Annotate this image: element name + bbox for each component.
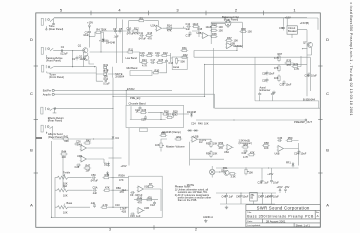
svg-text:(Rear Panel): (Rear Panel) bbox=[48, 119, 63, 123]
resistor R47 bbox=[83, 164, 91, 173]
svg-text:R18: R18 bbox=[103, 70, 108, 74]
svg-text:100: 100 bbox=[248, 30, 253, 34]
svg-text:R57: R57 bbox=[244, 143, 249, 147]
zone tick marks right bbox=[318, 66, 322, 173]
capacitor C2a .022uF bbox=[60, 45, 68, 56]
EQ band 2 box bbox=[126, 105, 184, 127]
svg-text:R67: R67 bbox=[278, 52, 283, 56]
capacitor C11 bbox=[138, 31, 146, 41]
svg-text:1/2: 1/2 bbox=[199, 140, 203, 144]
wire: J3 sleeve row bbox=[47, 71, 96, 73]
opamp U2A bbox=[151, 23, 164, 31]
capacitor C12b bbox=[150, 201, 156, 207]
resistor R15 bbox=[192, 25, 203, 31]
svg-text:4.7K: 4.7K bbox=[103, 203, 109, 207]
svg-text:R38: R38 bbox=[241, 27, 246, 31]
resistor R4 bbox=[100, 203, 108, 208]
label Mid Band bbox=[127, 66, 153, 76]
wire: U5B out down bbox=[190, 139, 224, 165]
svg-text:10K: 10K bbox=[264, 146, 269, 150]
svg-text:C15: C15 bbox=[140, 51, 145, 55]
jack J5 Effects Return bbox=[41, 107, 53, 114]
svg-text:10K: 10K bbox=[274, 76, 279, 80]
resistor R42 bbox=[83, 139, 91, 144]
wire: to U2B bbox=[192, 27, 211, 38]
svg-text:Ext/Pre: Ext/Pre bbox=[43, 88, 52, 92]
capacitor C8 bbox=[90, 201, 96, 208]
power block label +15V bbox=[285, 15, 310, 25]
svg-text:R10: R10 bbox=[138, 195, 143, 199]
svg-text:100: 100 bbox=[64, 139, 69, 143]
pot VR3 Aural Enhancer bbox=[171, 57, 188, 70]
zone letters left bbox=[30, 37, 33, 207]
resistor R5A bbox=[103, 186, 111, 192]
diode D1 bbox=[102, 37, 105, 42]
jack J6 Effects Send rear bbox=[41, 125, 52, 133]
diode D5 bbox=[104, 162, 110, 167]
svg-text:2N3904: 2N3904 bbox=[115, 74, 125, 78]
svg-text:Amp/In: Amp/In bbox=[43, 92, 52, 96]
svg-text:C: C bbox=[30, 91, 33, 96]
svg-text:Breaker: Breaker bbox=[288, 29, 297, 33]
resistor R7 bbox=[146, 182, 154, 187]
svg-text:Enhancer: Enhancer bbox=[260, 88, 271, 92]
svg-text:+15V(B): +15V(B) bbox=[300, 21, 310, 25]
svg-text:R51: R51 bbox=[177, 135, 182, 139]
wire: bus B3 bbox=[113, 96, 205, 100]
wire: summing drop bbox=[204, 64, 205, 97]
opamp U1B bbox=[137, 206, 150, 213]
svg-text:+15V: +15V bbox=[285, 15, 291, 19]
ground PSU bbox=[225, 206, 228, 209]
svg-text:Q1: Q1 bbox=[78, 43, 82, 47]
svg-text:C26: C26 bbox=[76, 140, 81, 144]
zone tick marks left bbox=[34, 66, 38, 173]
svg-text:.1uF: .1uF bbox=[90, 201, 96, 205]
svg-text:B: B bbox=[326, 148, 329, 153]
label 1N4448 D3 bbox=[187, 110, 197, 114]
resistor R14 bbox=[165, 24, 173, 33]
label +15V crossover bbox=[267, 172, 273, 176]
svg-text:50K: 50K bbox=[181, 59, 186, 63]
svg-text:10uF: 10uF bbox=[80, 57, 86, 61]
svg-text:C42: C42 bbox=[258, 194, 263, 198]
terminal E1 bbox=[43, 88, 55, 92]
resistor R11a on Q output bbox=[126, 48, 134, 53]
wire: J5 tip row bbox=[53, 108, 114, 109]
svg-text:47K: 47K bbox=[274, 66, 279, 70]
resistor R34 bbox=[210, 29, 223, 33]
svg-text:10uF: 10uF bbox=[269, 71, 275, 75]
resistor R70 cluster bbox=[284, 56, 301, 71]
balanced out label bbox=[222, 15, 239, 21]
svg-text:R15: R15 bbox=[198, 27, 203, 31]
resistor R35 bbox=[210, 32, 218, 38]
svg-text:ET202: ET202 bbox=[127, 87, 135, 91]
resistor R41 bbox=[62, 135, 70, 144]
capacitor C37 pair on box bottom bbox=[258, 92, 274, 101]
svg-text:100: 100 bbox=[219, 29, 224, 33]
transistor Q2 bbox=[79, 54, 89, 60]
resistor R54 bbox=[206, 150, 218, 158]
resistor R19 bbox=[103, 63, 109, 72]
svg-text:C2: C2 bbox=[61, 45, 65, 49]
svg-text:47K: 47K bbox=[167, 29, 172, 33]
svg-text:41B: 41B bbox=[122, 209, 127, 213]
label gain trim bbox=[187, 183, 195, 187]
label Master Volume bbox=[166, 145, 185, 149]
power arrows +15V -15V bbox=[277, 185, 290, 192]
svg-text:U6B: U6B bbox=[275, 151, 280, 155]
svg-text:C43: C43 bbox=[267, 194, 272, 198]
net label PREAMP_OUT bbox=[294, 120, 312, 124]
zone tick marks bottom bbox=[153, 225, 155, 229]
svg-text:than on the PCB.: than on the PCB. bbox=[178, 198, 198, 202]
svg-text:+15V: +15V bbox=[121, 164, 127, 168]
svg-text:C50: C50 bbox=[91, 173, 96, 177]
trimpot VR5 bbox=[245, 168, 253, 175]
svg-text:47K: 47K bbox=[287, 63, 292, 67]
svg-text:U4B: U4B bbox=[77, 154, 82, 158]
svg-text:47K: 47K bbox=[105, 186, 110, 190]
wire: bus B2 bbox=[54, 94, 320, 108]
svg-text:1N4148: 1N4148 bbox=[106, 41, 116, 45]
svg-text:C5A: C5A bbox=[93, 186, 98, 190]
svg-text:Aural: Aural bbox=[173, 65, 179, 69]
svg-text:R30: R30 bbox=[155, 69, 160, 73]
svg-text:R44: R44 bbox=[62, 149, 67, 153]
ground in limiter bbox=[272, 91, 275, 94]
opamp U4B bbox=[77, 154, 88, 162]
wire: treble row tail bbox=[110, 173, 128, 182]
svg-text:R53: R53 bbox=[206, 142, 211, 146]
jack J1 Tube input bbox=[41, 18, 53, 30]
capacitor C12 bbox=[185, 22, 199, 31]
svg-text:C12: C12 bbox=[150, 203, 155, 207]
wire: treble row bbox=[70, 177, 91, 179]
label Low Band bbox=[126, 56, 138, 60]
wire: J2 to stage bbox=[53, 50, 84, 51]
resistor R28 bbox=[162, 110, 170, 116]
pot VR3 Bass bbox=[57, 201, 73, 214]
svg-text:2: 2 bbox=[235, 7, 238, 12]
zone tick marks top bbox=[91, 11, 264, 16]
svg-text:(Front Panel): (Front Panel) bbox=[46, 59, 61, 63]
svg-text:D5: D5 bbox=[104, 163, 108, 167]
resistor R18 bbox=[103, 70, 108, 79]
svg-text:R12: R12 bbox=[134, 26, 139, 30]
resistor R67 bbox=[274, 52, 283, 62]
svg-text:C13: C13 bbox=[186, 33, 191, 37]
svg-text:R61: R61 bbox=[223, 166, 228, 170]
resistor R53 bbox=[206, 140, 218, 148]
notes text block bbox=[175, 185, 212, 202]
resistor R58 bbox=[262, 141, 270, 150]
capacitor C36 bbox=[279, 26, 285, 31]
svg-text:28 August 2001: 28 August 2001 bbox=[266, 219, 286, 223]
wire: bass row junction bbox=[108, 203, 128, 210]
svg-text:10uF: 10uF bbox=[206, 25, 212, 29]
plot filename banner (right margin, rotated) bbox=[349, 3, 353, 116]
svg-text:R9: R9 bbox=[140, 16, 144, 20]
diode D7 bbox=[187, 129, 192, 132]
svg-text:Mid Band: Mid Band bbox=[127, 66, 138, 70]
capacitor C1 on J1 stub bbox=[52, 18, 55, 25]
wire: Q collector rail bbox=[88, 43, 90, 55]
svg-text:1N4448: 1N4448 bbox=[187, 110, 197, 114]
svg-text:C30: C30 bbox=[262, 71, 267, 75]
svg-text:4.7K: 4.7K bbox=[142, 63, 148, 67]
svg-text:4.7K: 4.7K bbox=[294, 67, 300, 71]
svg-text:PRE_EQ: PRE_EQ bbox=[130, 96, 140, 100]
capacitor C16a bbox=[103, 77, 110, 86]
svg-text:D: D bbox=[30, 37, 33, 42]
svg-text:.1uF: .1uF bbox=[92, 191, 98, 195]
svg-text:10K: 10K bbox=[63, 210, 68, 214]
svg-text:Q7: Q7 bbox=[303, 41, 307, 45]
svg-text:10uF: 10uF bbox=[273, 180, 279, 184]
capacitor C40 bbox=[222, 194, 234, 199]
wire: R44 rail down bbox=[62, 156, 64, 189]
pot VR4 master bbox=[155, 139, 167, 152]
svg-text:C10: C10 bbox=[127, 26, 132, 30]
svg-text:10K: 10K bbox=[213, 152, 218, 156]
capacitor C26 bbox=[74, 140, 81, 146]
svg-text:47K: 47K bbox=[148, 37, 153, 41]
wire: left ground rail bbox=[47, 132, 52, 217]
label +15V(A) 1N4148 bbox=[99, 38, 115, 44]
capacitor C3 (vertical from +15V) bbox=[83, 27, 91, 37]
svg-text:R58: R58 bbox=[264, 141, 269, 145]
capacitor C38 bbox=[258, 168, 270, 184]
transistor Q1 bbox=[78, 43, 88, 53]
svg-text:+15V: +15V bbox=[87, 20, 93, 24]
title block text bbox=[247, 205, 319, 227]
resistor R50 bbox=[159, 131, 167, 136]
wire: preamp out bus bbox=[196, 119, 307, 121]
wire: bus B1 bbox=[54, 87, 172, 105]
svg-text:R54: R54 bbox=[206, 152, 211, 156]
svg-text:5: 5 bbox=[60, 7, 63, 12]
svg-text:C36: C36 bbox=[279, 26, 284, 30]
svg-text:R47: R47 bbox=[86, 164, 91, 168]
sheet border frame bbox=[36, 13, 321, 227]
zone letters right bbox=[326, 37, 329, 207]
resistor R11 bbox=[145, 195, 153, 200]
diode D3 bbox=[190, 112, 193, 117]
opamp U2B bbox=[197, 31, 210, 39]
svg-text:C11: C11 bbox=[139, 31, 144, 35]
svg-text:c:\cad Bass350 Preamp1.sch-1: c:\cad Bass350 Preamp1.sch-1 - Thu Aug 0… bbox=[349, 3, 353, 116]
svg-text:R13: R13 bbox=[148, 31, 153, 35]
output stage box bbox=[129, 176, 163, 217]
ground AGND-A bbox=[203, 215, 213, 223]
regulator K2 block bbox=[287, 26, 297, 34]
net label MUTE bbox=[115, 72, 125, 78]
resistor R12 bbox=[131, 26, 139, 35]
label C24 R40 bbox=[191, 122, 209, 126]
wire: pots left rail bbox=[55, 178, 57, 218]
svg-text:47K: 47K bbox=[250, 151, 255, 155]
svg-text:C32: C32 bbox=[280, 82, 285, 86]
svg-text:C18: C18 bbox=[169, 61, 174, 65]
svg-text:U6A: U6A bbox=[224, 150, 229, 154]
aural enhancer chain row 1 bbox=[140, 51, 168, 57]
svg-text:R19: R19 bbox=[103, 63, 108, 67]
resistor R37 feedback bbox=[225, 36, 238, 42]
svg-text:C16: C16 bbox=[155, 51, 160, 55]
svg-text:.1uF: .1uF bbox=[228, 194, 234, 198]
XLR connector J7 bbox=[211, 20, 242, 28]
svg-text:C24: C24 bbox=[191, 122, 196, 126]
wire: J5 ring row bbox=[53, 108, 57, 113]
opamp U3B bbox=[225, 42, 243, 49]
svg-text:U2A: U2A bbox=[151, 23, 156, 27]
svg-text:PREAMP_OUT: PREAMP_OUT bbox=[294, 120, 312, 124]
capacitor C30 bbox=[262, 71, 275, 76]
svg-text:C13: C13 bbox=[130, 214, 135, 218]
wire: mid row bbox=[70, 189, 92, 191]
svg-text:10K: 10K bbox=[62, 155, 67, 159]
resistor R49 bbox=[102, 173, 110, 179]
svg-text:.1uF: .1uF bbox=[264, 180, 270, 184]
diode D4 bbox=[112, 135, 120, 140]
resistor R69 bbox=[274, 74, 280, 82]
svg-text:4.7K: 4.7K bbox=[243, 155, 249, 159]
wire: band2 internals bbox=[130, 106, 174, 120]
svg-text:R33: R33 bbox=[212, 22, 217, 26]
wire: J6 row bbox=[53, 126, 64, 139]
svg-text:U2B: U2B bbox=[197, 31, 202, 35]
zone numbers top bbox=[60, 7, 297, 12]
resistor R44 bbox=[60, 149, 68, 158]
capacitor C4 C5 pair bbox=[113, 27, 123, 39]
svg-text:C31: C31 bbox=[262, 78, 267, 82]
capacitor C7 bbox=[130, 191, 143, 197]
net label stage in bbox=[122, 188, 127, 213]
svg-text:10K: 10K bbox=[249, 170, 254, 174]
svg-text:C: C bbox=[326, 91, 329, 96]
resistor R10 bbox=[135, 195, 143, 204]
svg-text:-15V: -15V bbox=[284, 185, 290, 189]
svg-text:Treble: Treble bbox=[63, 170, 71, 174]
wire: Q2 out to EQ chain bbox=[90, 31, 140, 53]
svg-text:C28: C28 bbox=[75, 165, 80, 169]
label J6 Effects Send (Rear Panel) bbox=[48, 132, 63, 139]
svg-text:.047uF: .047uF bbox=[138, 37, 146, 41]
svg-text:U5B: U5B bbox=[194, 134, 199, 138]
wire: supply drop rails bbox=[117, 18, 123, 63]
capacitor C13b bbox=[130, 213, 141, 219]
svg-text:3: 3 bbox=[109, 227, 111, 231]
wire: U3B out to rail bbox=[233, 46, 242, 51]
wire: mute ladder rails bbox=[96, 67, 115, 82]
svg-text:R50A: R50A bbox=[119, 173, 126, 177]
opamp U6B bbox=[275, 146, 285, 156]
svg-text:R59: R59 bbox=[288, 136, 293, 140]
resistor R32 summing bbox=[180, 53, 188, 58]
transistor Q7 limiter bbox=[302, 41, 313, 55]
wire: J2/J3 link rail bbox=[72, 51, 74, 67]
svg-text:AGND-A: AGND-A bbox=[203, 215, 213, 219]
svg-text:2: 2 bbox=[195, 227, 197, 231]
wire: mid row tail bbox=[111, 186, 129, 194]
svg-text:R25: R25 bbox=[159, 58, 164, 62]
label B-350-044 bbox=[303, 97, 315, 101]
svg-text:R70: R70 bbox=[287, 59, 292, 63]
svg-text:R41: R41 bbox=[64, 135, 69, 139]
capacitor C31 bbox=[262, 78, 269, 83]
wire: node under C3 bbox=[89, 32, 103, 43]
svg-text:A: A bbox=[317, 214, 319, 218]
svg-text:R35: R35 bbox=[212, 32, 217, 36]
svg-text:10uF: 10uF bbox=[286, 82, 292, 86]
pot VR1 Treble bbox=[57, 170, 71, 185]
svg-text:Date:: Date: bbox=[247, 220, 253, 223]
svg-text:.047uF: .047uF bbox=[90, 179, 98, 183]
resistor R56 bbox=[217, 141, 225, 150]
capacitor C43 bbox=[267, 194, 279, 199]
wire: summing column x113 bbox=[112, 78, 113, 135]
limiter box bbox=[213, 48, 318, 108]
opamp U1A bbox=[137, 185, 150, 192]
opamp U5B bbox=[191, 134, 207, 144]
svg-text:+15V: +15V bbox=[267, 172, 273, 176]
svg-text:C34: C34 bbox=[294, 152, 299, 156]
dark tick on left border bbox=[36, 137, 42, 139]
wire: enhancer out right long pair bbox=[194, 51, 310, 92]
svg-text:A: A bbox=[326, 203, 329, 208]
terminal E2 bbox=[43, 92, 55, 96]
capacitor C13 bbox=[186, 31, 192, 37]
svg-text:R56: R56 bbox=[219, 141, 224, 145]
svg-text:C41: C41 bbox=[236, 194, 241, 198]
resistor R51 bbox=[174, 135, 182, 140]
resistor R29 bbox=[171, 110, 179, 116]
svg-text:A: A bbox=[30, 203, 33, 208]
wire: Q2 emitter down bbox=[83, 52, 94, 67]
svg-text:47K: 47K bbox=[119, 178, 124, 182]
svg-text:.022uF: .022uF bbox=[60, 52, 68, 56]
wire: PSU ground rail bbox=[220, 199, 275, 205]
svg-text:47K: 47K bbox=[219, 146, 224, 150]
svg-text:10uF: 10uF bbox=[301, 152, 307, 156]
capacitor C2 bbox=[72, 56, 86, 61]
wire: top +15V rail bbox=[54, 17, 307, 19]
svg-text:10K: 10K bbox=[155, 143, 160, 147]
svg-text:C44: C44 bbox=[242, 151, 247, 155]
svg-text:R11: R11 bbox=[129, 48, 134, 52]
svg-text:(Front Panel): (Front Panel) bbox=[49, 75, 64, 79]
wire: U2A out right bbox=[163, 27, 186, 29]
svg-text:47K: 47K bbox=[148, 195, 153, 199]
svg-text:Bass: Bass bbox=[67, 201, 73, 205]
LED DS1 bbox=[210, 166, 229, 178]
svg-text:(Rear Panel): (Rear Panel) bbox=[224, 17, 239, 21]
svg-text:FR1: FR1 bbox=[286, 161, 291, 165]
svg-text:C35: C35 bbox=[305, 73, 310, 77]
svg-text:C40: C40 bbox=[222, 194, 227, 198]
svg-text:R8A: R8A bbox=[116, 186, 121, 190]
wire: J1 output bbox=[54, 18, 318, 30]
diode D9 bbox=[286, 161, 294, 168]
capacitor C20 bbox=[141, 115, 147, 121]
svg-text:Chorale Band: Chorale Band bbox=[129, 101, 147, 105]
wire: mid band out bbox=[160, 66, 167, 73]
svg-text:R24: R24 bbox=[142, 58, 147, 62]
svg-text:Sheet: 1 of 1: Sheet: 1 of 1 bbox=[296, 224, 311, 227]
svg-text:B: B bbox=[30, 148, 33, 153]
